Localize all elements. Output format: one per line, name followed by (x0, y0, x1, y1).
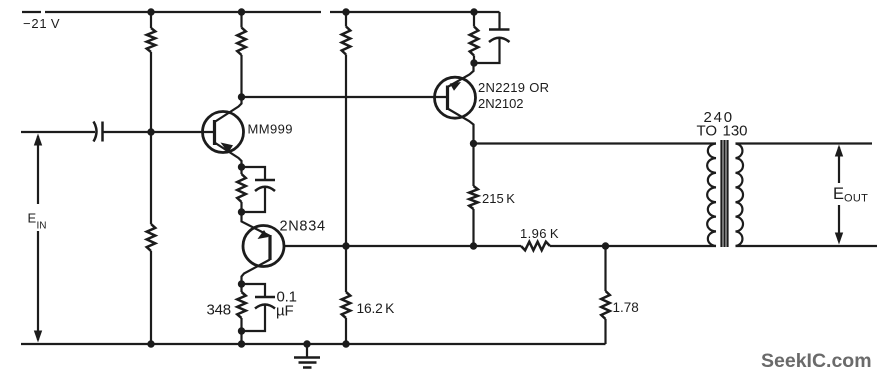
svg-text:µF: µF (276, 303, 293, 320)
node Ein arrow line (37, 136, 39, 340)
transistor Q2 collector lead (242, 260, 271, 285)
resistor R3 (Q1 collector load) (240, 12, 242, 28)
transistor Q3 base bar (446, 86, 449, 111)
transistor Q1 base bar (213, 120, 216, 145)
transformer T1 core (722, 140, 728, 247)
resistor R8 (Q3 collector) (473, 12, 475, 27)
transformer T1 secondary winding (736, 144, 744, 247)
resistor R6 (middle bias upper) (345, 12, 347, 27)
node junction Q2 collector (238, 280, 245, 287)
wire 1.96K to transformer primary bottom (550, 245, 716, 247)
svg-text:OUT: OUT (844, 193, 868, 205)
node junction top rail x151 (147, 8, 154, 15)
resistor R2 (input bias lower) (150, 132, 152, 224)
svg-text:1.96 K: 1.96 K (520, 226, 559, 241)
wire secondary top lead (736, 142, 873, 144)
transistor Q3 collector lead (448, 63, 474, 87)
node junction 1.78 top (602, 242, 609, 249)
capacitor C3 0.1uF (242, 284, 266, 297)
transistor Q3 emitter lead (448, 109, 474, 144)
node junction bottom x241 (238, 340, 245, 347)
svg-text:16.2 K: 16.2 K (357, 301, 396, 316)
node junction Q1 collector (238, 93, 245, 100)
resistor R1 (input bias upper) (150, 12, 152, 28)
node junction input/base x151 (147, 128, 154, 135)
wire Q3 emitter to transformer primary top (474, 142, 717, 144)
svg-text:2N834: 2N834 (280, 219, 326, 235)
svg-text:IN: IN (37, 221, 47, 232)
node junction top rail x241 (238, 8, 245, 15)
wire Q2 network to ground rail (240, 331, 242, 344)
node Eout arrow line (838, 147, 840, 241)
resistor R10 1.96K (521, 242, 550, 251)
transformer T1 primary winding (707, 144, 716, 247)
node junction bottom x346 (342, 340, 349, 347)
resistor R5 348 ohm (240, 284, 242, 292)
transistor Q3 collector arrow (450, 82, 461, 91)
wire top supply rail (-21V bus) (22, 11, 500, 13)
node junction 215K bottom (470, 242, 477, 249)
ground symbol (306, 344, 308, 358)
capacitor C4 (Q3 collector) (498, 12, 500, 30)
transistor Q2 emitter lead (242, 212, 271, 236)
node junction bottom ground stub (303, 340, 310, 347)
svg-text:2N2102: 2N2102 (478, 96, 524, 111)
transistor Q1 MM999 body (203, 112, 244, 153)
transistor Q1 collector lead (215, 97, 242, 122)
transistor Q1 emitter lead (215, 143, 242, 168)
capacitor C2 (Q1 emitter bypass) (242, 167, 266, 180)
node junction Q1 emitter network bottom (238, 208, 245, 215)
svg-text:TO 130: TO 130 (697, 123, 748, 140)
transistor Q3 2N2219 body (435, 77, 476, 118)
svg-text:SeekIC.com: SeekIC.com (761, 350, 872, 372)
node junction Q1 emitter (238, 163, 245, 170)
node junction Q3 emitter (470, 140, 477, 147)
node junction Q3 collector (470, 59, 477, 66)
svg-text:E: E (833, 185, 844, 203)
wire bottom ground rail (21, 343, 606, 345)
svg-text:MM999: MM999 (248, 122, 293, 137)
svg-text:348: 348 (207, 302, 231, 319)
wire input to MM999 base (103, 131, 215, 133)
svg-text:2N2219 OR: 2N2219 OR (478, 80, 549, 95)
wire Q1 collector to Q3 base (242, 96, 448, 98)
node junction base line x346 (342, 242, 349, 249)
arrowhead Eout bottom (835, 233, 843, 245)
node junction bottom x151 (147, 340, 154, 347)
arrowhead Ein bottom (34, 331, 42, 343)
transistor Q1 emitter arrow (PNP) (221, 143, 234, 153)
arrowhead Ein top (34, 134, 42, 146)
capacitor C1 input coupling (94, 122, 97, 142)
transistor Q2 base bar (268, 235, 271, 260)
wire input left segment (21, 131, 95, 133)
resistor R4 (Q1 emitter) (240, 167, 242, 174)
transistor Q2 emitter arrow (258, 230, 269, 239)
transistor Q2 2N834 body (243, 226, 284, 267)
arrowhead Eout top (835, 145, 843, 157)
svg-text:215 K: 215 K (482, 191, 515, 206)
svg-text:1.78: 1.78 (613, 300, 639, 315)
wire Q2 base line (284, 245, 521, 247)
wire secondary bottom lead (736, 245, 878, 247)
node junction top rail x474 (470, 8, 477, 15)
svg-text:−21 V: −21 V (23, 16, 60, 31)
node junction top rail x346 (342, 8, 349, 15)
resistor R11 1.78 (604, 246, 606, 291)
resistor R7 16.2K (345, 246, 347, 292)
node junction Q2 network bottom (238, 327, 245, 334)
resistor R9 215K (472, 144, 474, 187)
svg-text:E: E (28, 211, 37, 226)
